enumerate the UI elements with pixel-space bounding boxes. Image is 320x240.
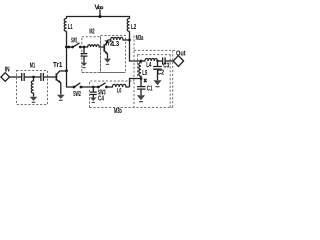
capacitor (M1 input)	[22, 73, 25, 81]
module Tr2 dashed box	[101, 36, 126, 73]
capacitor C4	[90, 87, 97, 98]
svg-text:C3: C3	[163, 62, 169, 69]
svg-text:C1: C1	[147, 86, 153, 93]
svg-text:C2: C2	[157, 70, 164, 77]
ground (Tr1 emitter)	[57, 95, 65, 101]
inductor L3	[108, 37, 130, 40]
module M3a dashed box	[90, 36, 176, 108]
svg-text:C4: C4	[98, 95, 104, 102]
node L5/C1/M3b junction	[140, 77, 143, 80]
ground (M1 shunt)	[30, 97, 38, 103]
node M1 center	[32, 76, 35, 79]
wire L1 to SW1 node	[66, 31, 68, 47]
wire collector rail	[67, 47, 75, 87]
ground (C1)	[137, 95, 145, 102]
svg-text:SW1: SW1	[71, 37, 78, 44]
inductor L2	[127, 19, 129, 32]
svg-text:M2: M2	[89, 28, 94, 35]
svg-text:M1: M1	[30, 62, 36, 69]
svg-text:IN: IN	[5, 66, 10, 73]
node M2 input	[83, 46, 86, 49]
module M2 dashed box	[82, 37, 101, 73]
capacitor (M1 output)	[41, 73, 44, 81]
X mark	[144, 79, 147, 83]
svg-text:L3: L3	[112, 41, 119, 48]
wire L6 riser to node	[130, 79, 142, 88]
transistor Tr2	[104, 40, 113, 59]
svg-text:SW2: SW2	[73, 91, 81, 98]
svg-text:Out: Out	[176, 50, 186, 57]
port Out diamond	[173, 56, 183, 67]
inductor L1	[64, 19, 66, 32]
ground (C4)	[90, 97, 97, 103]
wire	[34, 76, 41, 78]
svg-text:L4: L4	[146, 62, 151, 69]
inductor (M1 shunt)	[31, 77, 33, 97]
node collector junction	[65, 69, 68, 72]
svg-text:L5: L5	[142, 70, 147, 77]
wire Vcc stub	[99, 10, 101, 17]
wire IN to C	[10, 76, 22, 78]
capacitor C2	[153, 61, 162, 80]
node Vcc junction	[99, 15, 102, 18]
wire C3 to Out	[165, 60, 173, 62]
ground (Tr2 emitter)	[104, 59, 111, 65]
wire L2 down to node	[129, 31, 131, 40]
capacitor C3	[163, 57, 166, 64]
capacitor C1	[137, 79, 145, 96]
wire top rail Vcc	[67, 17, 130, 19]
wire	[24, 76, 33, 78]
svg-text:SW3: SW3	[98, 89, 106, 96]
svg-text:L2: L2	[131, 24, 136, 31]
transistor Tr1	[53, 62, 67, 94]
svg-text:M3b: M3b	[114, 108, 122, 115]
port IN diamond	[1, 73, 10, 82]
wire output node down	[130, 40, 142, 61]
switch SW2	[73, 83, 94, 98]
wire C to Tr1 base	[43, 76, 56, 78]
capacitor (M2 shunt)	[81, 47, 88, 63]
inductor L6	[107, 84, 130, 87]
switch SW3	[93, 83, 108, 97]
node L3/L2 junction	[128, 39, 131, 42]
inductor (M2 series)	[84, 45, 104, 47]
module M1 dashed box	[17, 71, 48, 105]
ground (C2)	[153, 80, 161, 87]
inductor L5	[139, 61, 141, 79]
svg-text:L1: L1	[68, 24, 73, 31]
switch SW1	[65, 37, 84, 48]
node C4 tap	[92, 86, 95, 89]
node C2 tap	[156, 60, 158, 62]
node L4 input	[140, 60, 143, 63]
inductor L4	[141, 58, 162, 61]
svg-text:L6: L6	[117, 88, 122, 95]
svg-text:M3a: M3a	[136, 35, 144, 42]
ground (M2 shunt)	[81, 63, 87, 68]
module M3b dashed box	[82, 73, 134, 108]
svg-text:Tr1: Tr1	[53, 62, 62, 69]
